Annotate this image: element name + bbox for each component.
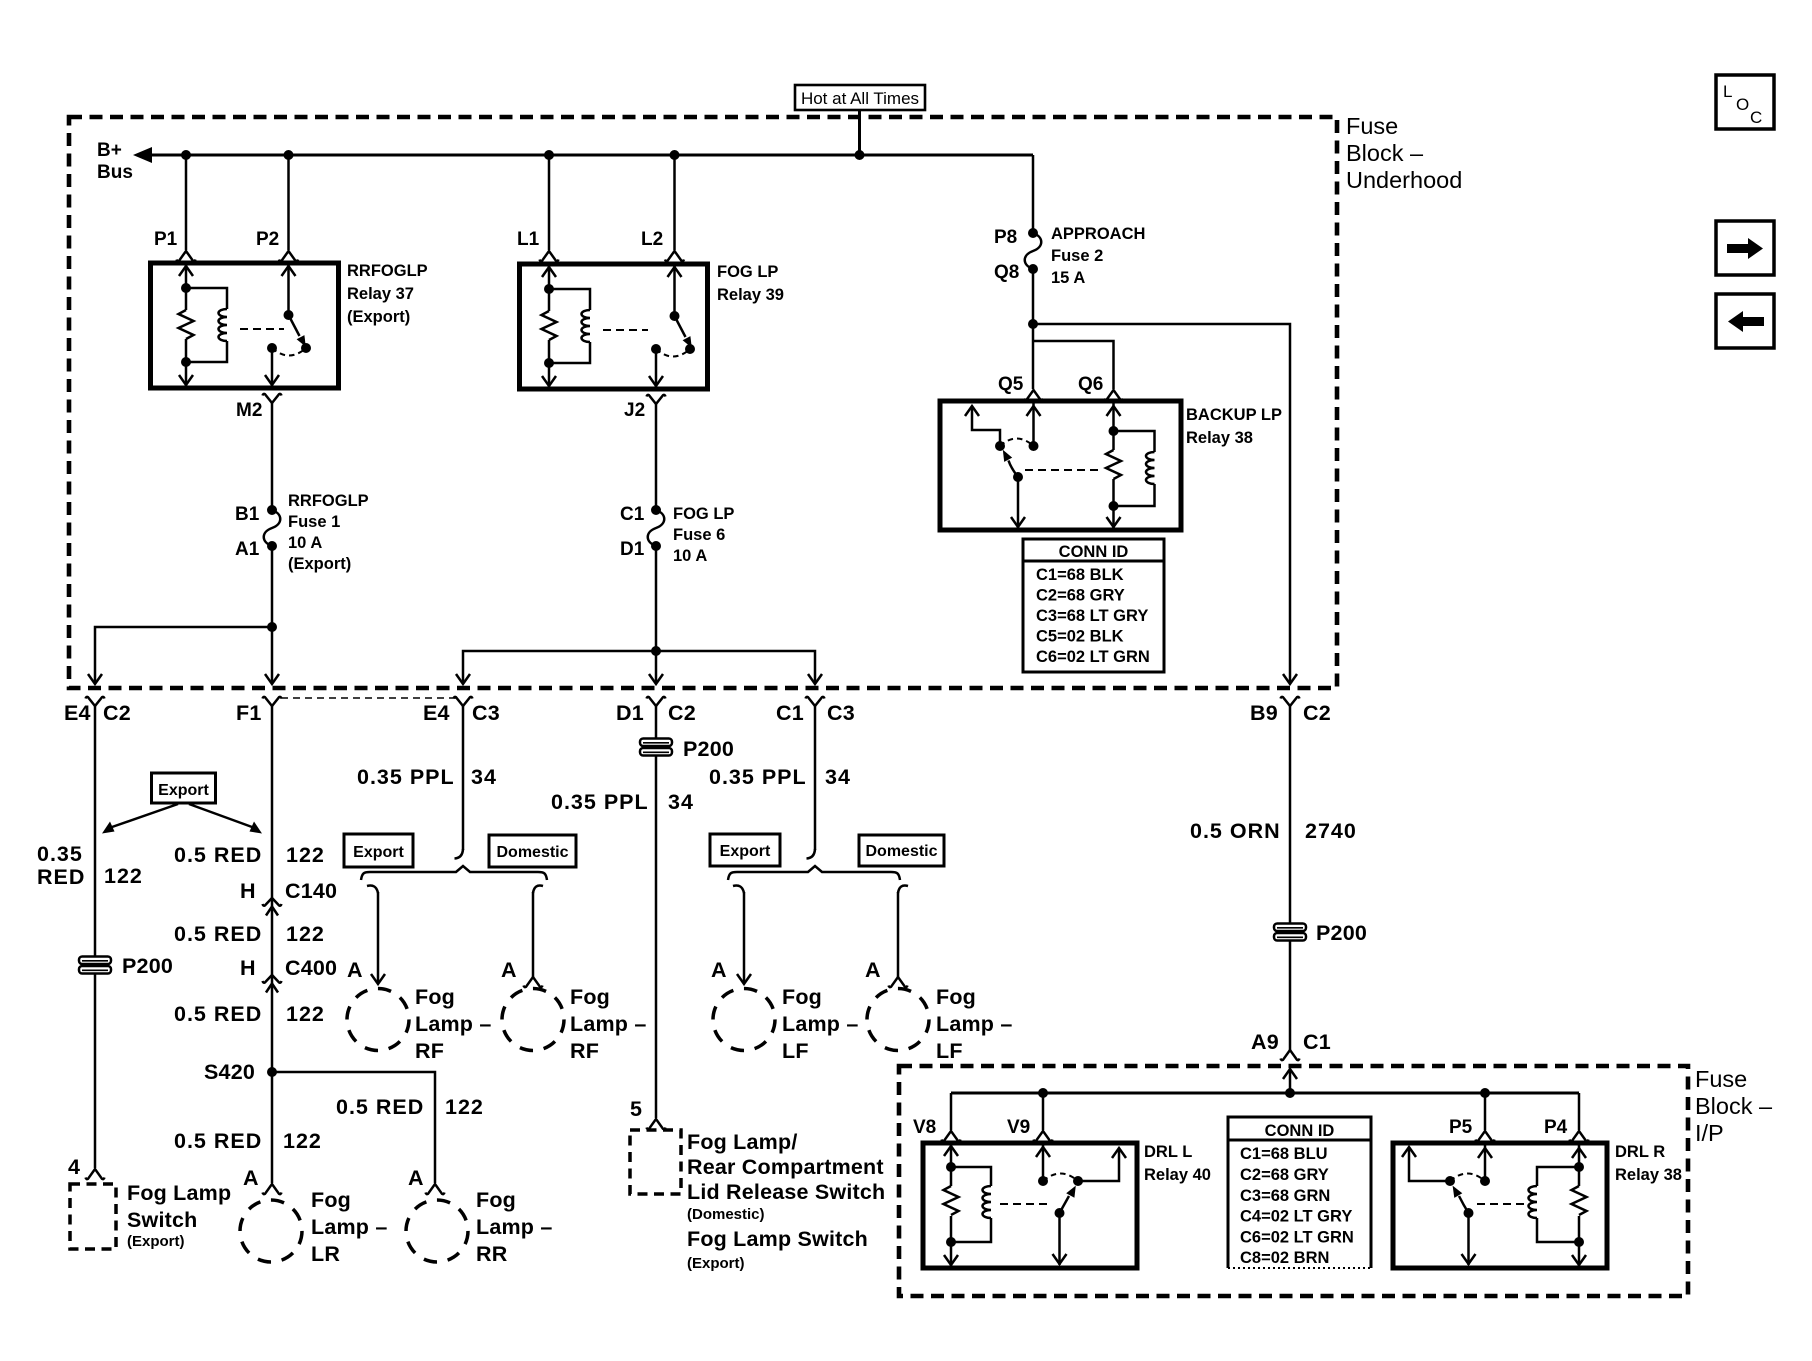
wire RF domestic branch (532, 892, 535, 977)
svg-text:Underhood: Underhood (1346, 167, 1462, 193)
svg-text:Fuse: Fuse (1695, 1066, 1747, 1092)
wire bus to P1 (185, 155, 188, 250)
svg-text:V9: V9 (1007, 1117, 1030, 1138)
svg-text:0.5 RED: 0.5 RED (174, 1129, 262, 1153)
svg-text:LF: LF (782, 1039, 809, 1063)
wire to V9 (1042, 1093, 1045, 1130)
svg-text:Fuse 2: Fuse 2 (1051, 247, 1103, 265)
pin A fog lamp LR (263, 1184, 282, 1194)
resistor relay 38 (1106, 450, 1121, 479)
relay 40 switch travel arc (1043, 1174, 1078, 1182)
svg-text:E4: E4 (64, 701, 91, 725)
svg-text:10 A: 10 A (288, 534, 322, 552)
svg-text:A: A (865, 958, 881, 982)
node junction D1 distribution (651, 646, 661, 656)
dashed box Fuse Block Underhood (69, 117, 1337, 688)
connector E4/C2 crossing (88, 674, 102, 684)
wire F1 down (271, 706, 274, 1183)
svg-text:DRL L: DRL L (1144, 1143, 1192, 1161)
svg-text:Fog: Fog (936, 985, 976, 1009)
svg-text:0.5 RED: 0.5 RED (174, 1002, 262, 1026)
pin P1 connector (177, 251, 196, 261)
relay DRL R coil pin P4 (1578, 1143, 1581, 1266)
svg-text:L2: L2 (641, 229, 663, 250)
pin Q5 connector (1024, 390, 1043, 400)
svg-text:A: A (347, 958, 363, 982)
svg-text:122: 122 (445, 1095, 484, 1119)
svg-text:0.5 RED: 0.5 RED (174, 922, 262, 946)
svg-text:P200: P200 (1316, 921, 1367, 945)
connector F1 crossing (265, 674, 279, 684)
svg-text:C2: C2 (668, 701, 696, 725)
pin L1 connector (540, 251, 559, 261)
svg-text:C400: C400 (285, 956, 337, 980)
resistor relay 37 (179, 310, 194, 339)
relay 37 coil-switch dashed link (240, 328, 284, 330)
relay 37 switch pin P2 (287, 263, 290, 315)
relay RRFOGLP Relay 37 box (151, 263, 339, 388)
svg-text:C3: C3 (472, 701, 500, 725)
connector P200 B9 (1274, 924, 1306, 941)
wire J2 to fuse 6 (655, 404, 658, 510)
svg-text:P200: P200 (122, 954, 173, 978)
connector B9/C2 crossing (1283, 674, 1297, 684)
svg-text:10 A: 10 A (673, 547, 707, 565)
node B+ bus (148, 154, 1033, 157)
svg-text:P8: P8 (994, 227, 1017, 248)
connector A9/C1 (1281, 1050, 1300, 1060)
node S420 (267, 1067, 277, 1077)
svg-text:0.35: 0.35 (37, 842, 83, 866)
svg-text:V8: V8 (913, 1117, 936, 1138)
svg-text:F1: F1 (236, 701, 262, 725)
pin Q6 connector (1104, 390, 1123, 400)
pin 4 connector (86, 1169, 105, 1179)
relay 37 output (267, 343, 277, 353)
wire fuse1 to junction (271, 546, 274, 627)
svg-text:Rear Compartment: Rear Compartment (687, 1155, 884, 1179)
relay DRL R output (1467, 1213, 1470, 1265)
splice brace LF (728, 866, 900, 880)
relay 38 switch travel arc (1000, 439, 1034, 447)
svg-text:Relay 38: Relay 38 (1186, 429, 1253, 447)
wire B9/C2 down (1289, 706, 1292, 1050)
svg-text:Fuse 6: Fuse 6 (673, 526, 725, 544)
svg-text:Fog: Fog (311, 1188, 351, 1212)
Export pointer box (152, 773, 216, 803)
wire E4/C3 down (462, 706, 465, 850)
svg-text:Fog: Fog (782, 985, 822, 1009)
svg-text:C3=68 LT GRY: C3=68 LT GRY (1036, 607, 1148, 625)
wire bus to P2 (287, 155, 290, 250)
coil relay DRL R (1537, 1167, 1579, 1242)
svg-text:122: 122 (286, 922, 325, 946)
wire to P5 (1484, 1093, 1487, 1130)
svg-text:Lamp –: Lamp – (570, 1012, 646, 1036)
relay DRL L Relay 40 box (923, 1143, 1137, 1268)
svg-text:C1: C1 (620, 504, 645, 525)
fuse FOG LP Fuse 6 (648, 505, 665, 551)
svg-text:C3: C3 (827, 701, 855, 725)
coil relay 39 (549, 289, 590, 363)
svg-text:Domestic: Domestic (496, 844, 568, 861)
relay 38 coil pin Q6 (1112, 401, 1115, 528)
dashed box Fuse Block I/P (899, 1066, 1688, 1296)
relay DRL R switch travel arc (1450, 1174, 1485, 1182)
svg-text:Domestic: Domestic (865, 843, 937, 860)
svg-text:A: A (711, 958, 727, 982)
svg-text:B9: B9 (1250, 701, 1278, 725)
relay 39 output (651, 344, 661, 354)
connector E4/C3 crossing (456, 674, 470, 684)
svg-text:4: 4 (68, 1155, 80, 1179)
lamp Fog Lamp RF export (347, 989, 409, 1051)
svg-text:Fog Lamp: Fog Lamp (127, 1181, 231, 1205)
wire LF export branch (743, 892, 746, 984)
svg-text:C2=68 GRY: C2=68 GRY (1036, 587, 1125, 605)
node junction A1/E4 (267, 622, 277, 632)
svg-text:(Export): (Export) (687, 1255, 745, 1272)
fuse APPROACH Fuse 2 (1025, 228, 1042, 274)
wire to V8 (950, 1093, 953, 1130)
node junction Q8/B9 (1028, 319, 1038, 329)
svg-text:Block –: Block – (1346, 140, 1424, 166)
svg-text:Fog: Fog (570, 985, 610, 1009)
connector D1/C2 crossing (649, 674, 663, 684)
relay 38 coil-switch dashed link (1025, 469, 1100, 471)
svg-text:DRL R: DRL R (1615, 1143, 1665, 1161)
svg-text:Lamp –: Lamp – (936, 1012, 1012, 1036)
svg-text:C1=68 BLK: C1=68 BLK (1036, 566, 1124, 584)
svg-text:J2: J2 (624, 400, 645, 421)
svg-text:RRFOGLP: RRFOGLP (288, 492, 369, 510)
relay 40 switch pin V9 (1042, 1143, 1045, 1181)
node I/P distribution (951, 1092, 1579, 1095)
wire fuse2 to Q5 (1032, 269, 1035, 389)
svg-text:C3=68 GRN: C3=68 GRN (1240, 1187, 1330, 1205)
svg-text:C4=02 LT GRY: C4=02 LT GRY (1240, 1208, 1352, 1226)
svg-text:Fog: Fog (476, 1188, 516, 1212)
wire to P4 (1578, 1093, 1581, 1130)
svg-text:Lamp –: Lamp – (782, 1012, 858, 1036)
relay 40 coil-switch dashed link (1000, 1203, 1048, 1205)
wire bus to L2 (673, 155, 676, 250)
wire RF export branch (377, 892, 380, 984)
icon left arrow box (1716, 294, 1774, 348)
svg-text:Relay 37: Relay 37 (347, 285, 414, 303)
svg-text:0.35 PPL: 0.35 PPL (357, 765, 455, 789)
relay 39 switch travel arc (656, 349, 690, 357)
svg-text:APPROACH: APPROACH (1051, 225, 1145, 243)
relay 37 switch travel arc (272, 348, 306, 356)
svg-text:A9: A9 (1251, 1030, 1279, 1054)
svg-text:15 A: 15 A (1051, 269, 1085, 287)
relay 38 output (1017, 477, 1020, 528)
svg-text:Relay 40: Relay 40 (1144, 1166, 1211, 1184)
B+ bus arrow (133, 147, 152, 163)
svg-text:C2: C2 (1303, 701, 1331, 725)
svg-text:C8=02 BRN: C8=02 BRN (1240, 1249, 1329, 1267)
svg-text:Lid Release Switch: Lid Release Switch (687, 1180, 885, 1204)
svg-text:Switch: Switch (127, 1208, 198, 1232)
svg-text:RF: RF (415, 1039, 444, 1063)
Export pointer arrows (112, 804, 178, 827)
wire F1 down to border (271, 627, 274, 683)
icon LOC box (1716, 75, 1774, 129)
coil relay 38 (1114, 431, 1155, 506)
relay 39 coil pin L1 (548, 264, 551, 387)
wire LF domestic branch (897, 892, 900, 977)
svg-text:P1: P1 (154, 229, 178, 250)
relay 39 switch pin L2 (673, 264, 676, 316)
fuse RRFOGLP Fuse 1 (264, 505, 281, 551)
connector C1/C3 crossing (808, 674, 822, 684)
table CONN ID underhood (1023, 539, 1164, 672)
svg-text:L1: L1 (517, 229, 540, 250)
relay 40 switch blade (1060, 1196, 1070, 1213)
svg-text:C1: C1 (776, 701, 804, 725)
svg-text:L: L (1723, 82, 1732, 101)
svg-text:A: A (408, 1166, 424, 1190)
svg-text:FOG LP: FOG LP (673, 505, 734, 523)
svg-text:P2: P2 (256, 229, 279, 250)
svg-text:M2: M2 (236, 400, 262, 421)
svg-text:O: O (1736, 95, 1749, 114)
lamp Fog Lamp LF domestic (867, 989, 929, 1051)
svg-text:122: 122 (283, 1129, 322, 1153)
svg-text:RF: RF (570, 1039, 599, 1063)
pin 5 connector (647, 1119, 666, 1129)
wire bus down to fuse 2 (1032, 155, 1035, 233)
svg-text:BACKUP LP: BACKUP LP (1186, 406, 1282, 424)
table CONN ID I/P (1228, 1117, 1371, 1268)
svg-text:Lamp –: Lamp – (311, 1215, 387, 1239)
svg-text:Fog: Fog (415, 985, 455, 1009)
Domestic box RF (489, 835, 576, 867)
svg-text:34: 34 (471, 765, 497, 789)
resistor relay 40 (944, 1186, 959, 1215)
coil relay 37 (186, 288, 227, 362)
relay DRL R coil-switch dashed link (1477, 1203, 1528, 1205)
relay 40 output (1058, 1213, 1061, 1265)
svg-text:A: A (243, 1166, 259, 1190)
svg-text:Fog Lamp Switch: Fog Lamp Switch (687, 1227, 868, 1251)
svg-text:Export: Export (720, 843, 771, 860)
svg-text:RRFOGLP: RRFOGLP (347, 262, 428, 280)
svg-text:C2=68 GRY: C2=68 GRY (1240, 1166, 1329, 1184)
svg-text:122: 122 (286, 1002, 325, 1026)
connector P200 left (79, 957, 111, 974)
relay 39 coil-switch dashed link (603, 329, 648, 331)
svg-text:S420: S420 (204, 1060, 255, 1084)
connector P200 D1 (640, 739, 672, 756)
svg-text:Q5: Q5 (998, 374, 1024, 395)
wire C1/C3 down (814, 706, 817, 850)
coil relay 40 (951, 1167, 991, 1242)
svg-text:(Domestic): (Domestic) (687, 1206, 765, 1223)
svg-text:C: C (1750, 108, 1762, 127)
svg-text:34: 34 (668, 790, 694, 814)
svg-text:Block –: Block – (1695, 1093, 1773, 1119)
svg-text:RR: RR (476, 1242, 508, 1266)
svg-text:D1: D1 (616, 701, 644, 725)
lamp Fog Lamp LF export (713, 989, 775, 1051)
pin A fog lamp RR (426, 1184, 445, 1194)
svg-text:CONN ID: CONN ID (1059, 543, 1129, 561)
relay FOG LP Relay 39 box (520, 264, 708, 389)
relay BACKUP LP Relay 38 box (940, 401, 1181, 530)
svg-text:C1: C1 (1303, 1030, 1331, 1054)
svg-text:Q6: Q6 (1078, 374, 1103, 395)
svg-text:C2: C2 (103, 701, 131, 725)
wire to B9 (1033, 324, 1290, 683)
icon right arrow box (1716, 221, 1774, 275)
wire D1/C2 down (655, 706, 658, 1118)
svg-text:I/P: I/P (1695, 1120, 1724, 1146)
relay DRL R NC contact (1409, 1148, 1450, 1181)
wire D1 down to border (655, 651, 658, 683)
relay 37 switch blade (289, 315, 300, 336)
svg-text:LF: LF (936, 1039, 963, 1063)
svg-text:RED: RED (37, 865, 85, 889)
relay 40 coil pin V8 (950, 1143, 953, 1266)
svg-text:B1: B1 (235, 504, 260, 525)
svg-text:Fuse 1: Fuse 1 (288, 513, 340, 531)
svg-text:Lamp –: Lamp – (476, 1215, 552, 1239)
wire fuse6 to junction (655, 546, 658, 651)
Domestic box LF (859, 835, 944, 866)
wire M2 to fuse 1 (271, 403, 274, 510)
svg-text:(Export): (Export) (288, 555, 351, 573)
lamp Fog Lamp LR (240, 1200, 302, 1262)
svg-text:Fog Lamp/: Fog Lamp/ (687, 1130, 798, 1154)
svg-text:0.35 PPL: 0.35 PPL (551, 790, 649, 814)
relay DRL R Relay 38 box (1393, 1143, 1607, 1268)
junction dots on bus (181, 150, 191, 160)
relay 38 switch blade (1009, 461, 1019, 478)
relay DRL R switch pin P5 (1484, 1143, 1487, 1181)
relay 40 NC contact (1078, 1149, 1119, 1181)
Export box RF (344, 834, 413, 867)
splice brace RF (361, 866, 547, 880)
wire from Hot box to bus (858, 110, 861, 155)
svg-text:A: A (501, 958, 517, 982)
relay DRL R switch blade (1459, 1196, 1469, 1213)
pin L2 connector (665, 251, 684, 261)
svg-text:2740: 2740 (1305, 819, 1357, 843)
Hot at All Times box (795, 85, 925, 110)
svg-text:C1=68 BLU: C1=68 BLU (1240, 1145, 1328, 1163)
resistor relay 39 (542, 311, 557, 340)
Fog Lamp / Rear Compartment switch dashed box (630, 1130, 681, 1194)
svg-text:P200: P200 (683, 737, 734, 761)
svg-text:122: 122 (286, 843, 325, 867)
svg-text:D1: D1 (620, 539, 645, 560)
svg-text:Relay 38: Relay 38 (1615, 1166, 1682, 1184)
svg-text:C5=02 BLK: C5=02 BLK (1036, 628, 1124, 646)
svg-text:Hot at All Times: Hot at All Times (801, 89, 919, 108)
wire S420 branch to RR (272, 1072, 435, 1183)
resistor relay DRL R (1572, 1186, 1587, 1215)
svg-text:E4: E4 (423, 701, 450, 725)
svg-text:Lamp –: Lamp – (415, 1012, 491, 1036)
svg-text:LR: LR (311, 1242, 340, 1266)
svg-text:FOG LP: FOG LP (717, 263, 778, 281)
svg-text:CONN ID: CONN ID (1265, 1122, 1335, 1140)
pin P2 connector (279, 251, 298, 261)
wire thin dashed tie (281, 697, 458, 699)
wire E4/C2 down (94, 706, 97, 1168)
svg-text:Q8: Q8 (994, 262, 1019, 283)
svg-text:C6=02 LT GRN: C6=02 LT GRN (1036, 648, 1150, 666)
svg-text:H: H (240, 879, 256, 903)
svg-text:Export: Export (158, 782, 209, 799)
svg-text:C6=02 LT GRN: C6=02 LT GRN (1240, 1229, 1354, 1247)
svg-text:B+: B+ (97, 140, 122, 161)
svg-text:34: 34 (825, 765, 851, 789)
relay 38 switch pin Q5 (1032, 401, 1035, 446)
svg-text:H: H (240, 956, 256, 980)
wire to Q6 (1033, 341, 1114, 389)
Export box LF (710, 834, 780, 866)
svg-text:5: 5 (630, 1097, 643, 1121)
lamp Fog Lamp RR (406, 1200, 468, 1262)
relay 39 switch blade (675, 316, 686, 337)
svg-text:C140: C140 (285, 879, 337, 903)
lamp Fog Lamp RF domestic (502, 989, 564, 1051)
svg-text:P5: P5 (1449, 1117, 1473, 1138)
svg-text:122: 122 (104, 864, 143, 888)
svg-text:P4: P4 (1544, 1117, 1568, 1138)
svg-text:0.5 RED: 0.5 RED (174, 843, 262, 867)
svg-text:Export: Export (353, 844, 404, 861)
svg-text:(Export): (Export) (127, 1233, 185, 1250)
svg-text:Bus: Bus (97, 162, 133, 183)
svg-text:0.5 ORN: 0.5 ORN (1190, 819, 1281, 843)
pin J2 connector (647, 395, 666, 404)
svg-text:0.35 PPL: 0.35 PPL (709, 765, 807, 789)
svg-text:(Export): (Export) (347, 308, 410, 326)
svg-text:0.5 RED: 0.5 RED (336, 1095, 424, 1119)
pin M2 connector (263, 394, 282, 403)
svg-text:A1: A1 (235, 539, 260, 560)
Fog Lamp Switch dashed box (70, 1184, 116, 1249)
wire bus to L1 (548, 155, 551, 250)
svg-text:Fuse: Fuse (1346, 113, 1398, 139)
relay 38 NC contact (972, 407, 1000, 446)
svg-text:Relay 39: Relay 39 (717, 286, 784, 304)
relay 37 coil pin P1 (185, 263, 188, 386)
